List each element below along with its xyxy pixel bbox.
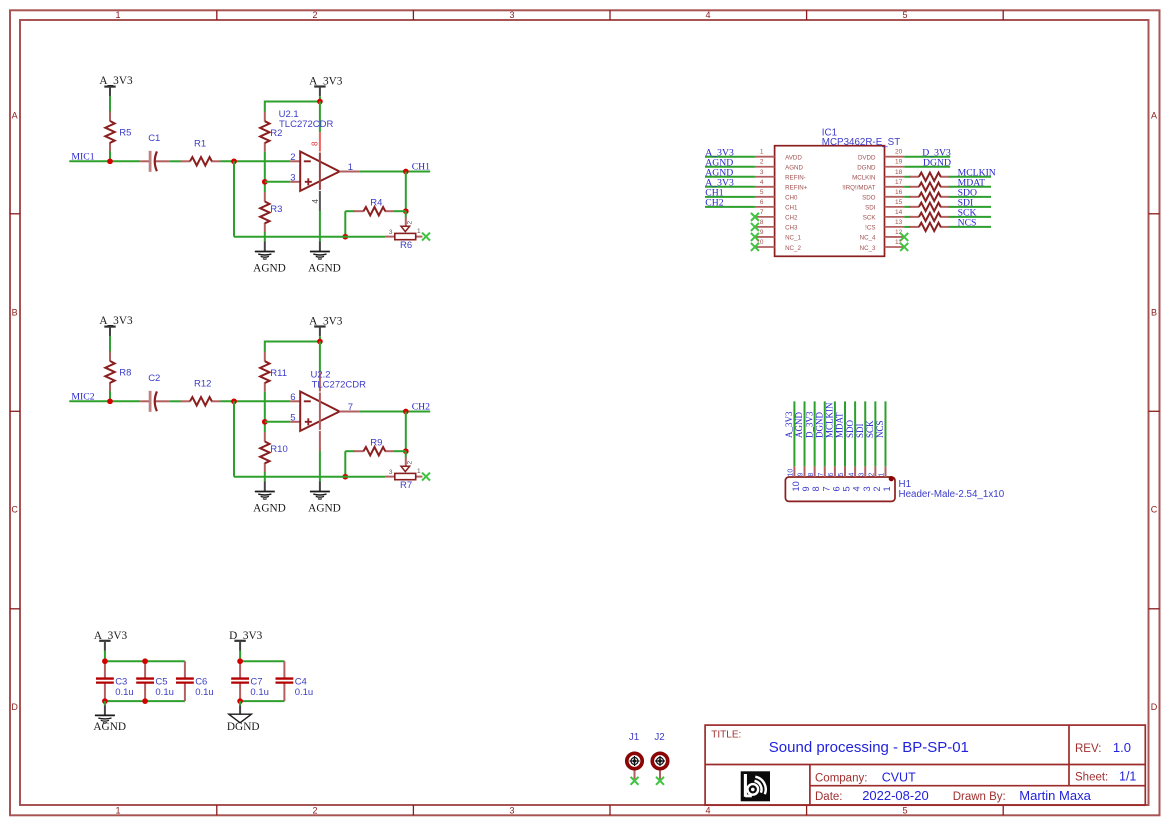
svg-text:3: 3 xyxy=(290,172,295,183)
pin 4 xyxy=(755,186,775,188)
pin 7 xyxy=(755,216,775,218)
series resistor xyxy=(904,176,911,178)
pin 4 wire net SDO xyxy=(854,401,856,466)
pin V- xyxy=(319,431,321,451)
svg-text:0.1u: 0.1u xyxy=(155,687,174,698)
svg-text:9: 9 xyxy=(798,473,805,477)
pin 16 xyxy=(885,196,905,198)
svg-text:R12: R12 xyxy=(194,378,211,389)
wire xyxy=(169,400,181,402)
wire to AGND xyxy=(104,701,106,705)
wire feedback left vertical xyxy=(233,401,235,476)
svg-text:10: 10 xyxy=(791,481,801,491)
junction xyxy=(342,474,348,480)
svg-text:AGND: AGND xyxy=(253,263,286,275)
no-connect X xyxy=(751,243,759,251)
resistor R3 xyxy=(264,192,266,202)
svg-text:4: 4 xyxy=(848,473,855,477)
svg-text:J2: J2 xyxy=(654,732,664,743)
svg-text:4: 4 xyxy=(705,806,710,816)
svg-text:DGND: DGND xyxy=(814,412,824,438)
svg-text:CH2: CH2 xyxy=(785,215,798,222)
series resistor xyxy=(904,206,911,208)
pin 5 xyxy=(755,196,775,198)
wire to non-inverting input xyxy=(265,181,291,183)
ground DGND xyxy=(229,714,252,723)
wire net CH2 xyxy=(705,206,755,208)
svg-text:A: A xyxy=(12,111,18,121)
svg-text:8: 8 xyxy=(811,486,821,491)
svg-text:SDI: SDI xyxy=(855,423,865,438)
svg-text:B: B xyxy=(12,308,18,318)
wire to inverting input xyxy=(221,400,291,402)
no-connect X xyxy=(751,213,759,221)
svg-text:7: 7 xyxy=(760,209,764,216)
wire MIC input xyxy=(69,160,140,162)
svg-text:AGND: AGND xyxy=(785,165,803,172)
wire to DGND xyxy=(239,701,241,705)
svg-text:0.1u: 0.1u xyxy=(115,687,134,698)
svg-text:8: 8 xyxy=(760,219,764,226)
svg-text:DVDD: DVDD xyxy=(858,155,876,162)
wire R3 to ground xyxy=(264,472,266,482)
ground AGND xyxy=(310,251,330,253)
wire supply to ground xyxy=(319,211,321,242)
op-amp output lead xyxy=(340,411,360,413)
svg-text:2022-08-20: 2022-08-20 xyxy=(862,788,929,803)
pin 6 xyxy=(755,206,775,208)
no-connect X xyxy=(751,223,759,231)
svg-text:J1: J1 xyxy=(629,732,639,743)
svg-text:!IRQ!/MDAT: !IRQ!/MDAT xyxy=(842,185,875,192)
wire R2 to R3 node xyxy=(264,152,266,192)
svg-text:CVUT: CVUT xyxy=(882,770,916,784)
series resistor xyxy=(904,226,911,228)
svg-text:TLC272CDR: TLC272CDR xyxy=(312,380,367,391)
IC IC1 MCP3462R-E_ST xyxy=(775,146,885,257)
wire net AGND xyxy=(705,166,755,168)
capacitor C6 xyxy=(184,661,186,678)
wire R2 to R3 node xyxy=(264,392,266,432)
pin 5 wire net MDAT xyxy=(844,401,846,466)
pin 18 xyxy=(885,176,905,178)
svg-text:R11: R11 xyxy=(270,368,287,379)
svg-text:1/1: 1/1 xyxy=(1119,769,1136,783)
op-amp output lead xyxy=(340,171,360,173)
svg-text:3: 3 xyxy=(760,169,764,176)
svg-text:REV:: REV: xyxy=(1075,743,1101,755)
wire MIC input xyxy=(69,400,140,402)
resistor R4 xyxy=(345,210,355,212)
svg-text:14: 14 xyxy=(895,209,903,216)
junction xyxy=(237,658,243,664)
svg-text:20: 20 xyxy=(895,149,903,156)
ground AGND xyxy=(255,491,275,493)
svg-text:17: 17 xyxy=(895,179,903,186)
series resistor xyxy=(904,186,911,188)
resistor R8 xyxy=(109,352,111,362)
wire output to CH xyxy=(359,171,430,173)
series resistor xyxy=(904,196,911,198)
wire net DGND xyxy=(904,166,950,168)
svg-text:4: 4 xyxy=(705,10,710,20)
capacitor C3 xyxy=(104,661,106,678)
resistor R1 xyxy=(181,160,191,162)
wire op-amp supply vertical xyxy=(319,102,321,133)
svg-text:D: D xyxy=(11,702,18,712)
svg-text:TITLE:: TITLE: xyxy=(711,730,741,741)
pin 2 wire net SCK xyxy=(874,401,876,466)
svg-text:DGND: DGND xyxy=(857,165,876,172)
svg-text:7: 7 xyxy=(821,486,831,491)
pin 17 xyxy=(885,186,905,188)
wire bottom rail xyxy=(240,700,284,702)
svg-text:5: 5 xyxy=(902,10,907,20)
svg-text:R1: R1 xyxy=(194,138,206,149)
pin 4 V- xyxy=(319,191,321,211)
no-connect X xyxy=(900,233,908,241)
svg-text:CH2: CH2 xyxy=(705,198,723,209)
junction xyxy=(317,339,323,345)
svg-text:AGND: AGND xyxy=(253,503,286,515)
svg-text:AGND: AGND xyxy=(308,263,341,275)
svg-text:MIC2: MIC2 xyxy=(71,391,94,402)
connector H1 Header-Male-2.54_1x10 xyxy=(785,477,895,501)
ground AGND xyxy=(310,491,330,493)
junction xyxy=(262,179,268,185)
svg-text:Header-Male-2.54_1x10: Header-Male-2.54_1x10 xyxy=(899,489,1005,500)
svg-text:Drawn By:: Drawn By: xyxy=(953,791,1006,803)
junction xyxy=(231,398,237,404)
pin 14 xyxy=(885,216,905,218)
wire net AGND xyxy=(705,176,755,178)
svg-text:6: 6 xyxy=(828,473,835,477)
wire output to CH xyxy=(359,411,430,413)
svg-text:R8: R8 xyxy=(119,368,131,379)
svg-text:R6: R6 xyxy=(400,240,412,251)
svg-text:SDO: SDO xyxy=(862,195,876,202)
svg-text:R10: R10 xyxy=(270,444,287,455)
pin 3 wire net SDI xyxy=(864,401,866,466)
svg-text:1: 1 xyxy=(760,149,764,156)
pin 9 xyxy=(755,236,775,238)
svg-text:MCP3462R-E_ST: MCP3462R-E_ST xyxy=(822,137,900,148)
svg-text:3: 3 xyxy=(858,473,865,477)
svg-text:R5: R5 xyxy=(119,128,131,139)
capacitor C5 xyxy=(144,661,146,678)
junction xyxy=(403,169,409,175)
svg-text:CH2: CH2 xyxy=(412,402,430,413)
svg-text:MIC1: MIC1 xyxy=(71,151,94,162)
capacitor C1 xyxy=(140,160,149,162)
svg-text:18: 18 xyxy=(895,169,903,176)
svg-text:1.0: 1.0 xyxy=(1113,740,1131,755)
svg-text:R7: R7 xyxy=(400,480,412,491)
trimmer R6 xyxy=(405,211,407,217)
junction xyxy=(107,398,113,404)
svg-text:3: 3 xyxy=(509,10,514,20)
svg-text:3: 3 xyxy=(862,486,872,491)
pin 10 wire net A_3V3 xyxy=(793,401,795,466)
svg-text:8: 8 xyxy=(311,141,320,146)
junction xyxy=(102,658,108,664)
wire feedback bottom xyxy=(234,236,385,238)
resistor R2 xyxy=(264,112,266,122)
svg-text:C1: C1 xyxy=(148,133,160,144)
wire net CH1 xyxy=(705,196,755,198)
svg-text:A_3V3: A_3V3 xyxy=(784,411,794,438)
svg-text:1: 1 xyxy=(879,473,886,477)
junction xyxy=(107,158,113,164)
pin 20 xyxy=(885,156,905,158)
wire supply to ground xyxy=(319,451,321,482)
svg-text:DGND: DGND xyxy=(923,157,951,168)
svg-text:7: 7 xyxy=(818,473,825,477)
no-connect X xyxy=(422,233,430,241)
wire xyxy=(169,160,181,162)
svg-text:C: C xyxy=(11,505,18,515)
svg-text:CH1: CH1 xyxy=(785,205,798,212)
svg-text:6: 6 xyxy=(831,486,841,491)
pin 1 xyxy=(755,156,775,158)
svg-text:5: 5 xyxy=(760,189,764,196)
svg-text:2: 2 xyxy=(872,486,882,491)
svg-text:2: 2 xyxy=(407,461,414,465)
junction xyxy=(231,158,237,164)
svg-text:A_3V3: A_3V3 xyxy=(94,630,128,642)
svg-text:AGND: AGND xyxy=(308,503,341,515)
svg-text:AGND: AGND xyxy=(93,721,126,733)
svg-text:Sound processing - BP-SP-01: Sound processing - BP-SP-01 xyxy=(769,739,969,756)
svg-text:SCK: SCK xyxy=(863,215,877,222)
wire CH down to R4 xyxy=(405,172,407,212)
svg-text:5: 5 xyxy=(842,486,852,491)
pin 19 xyxy=(885,166,905,168)
svg-text:NCS: NCS xyxy=(958,218,977,229)
svg-text:D: D xyxy=(1151,702,1158,712)
pin 15 xyxy=(885,206,905,208)
svg-text:NCS: NCS xyxy=(875,420,885,438)
svg-text:Date:: Date: xyxy=(815,791,843,803)
svg-text:SDO: SDO xyxy=(845,419,855,438)
svg-text:1: 1 xyxy=(417,228,421,235)
svg-text:4: 4 xyxy=(311,199,320,204)
no-connect X xyxy=(656,777,664,785)
wire feedback bottom xyxy=(234,476,385,478)
no-connect X xyxy=(422,473,430,481)
svg-text:C: C xyxy=(1151,505,1158,515)
svg-text:TLC272CDR: TLC272CDR xyxy=(279,119,334,130)
svg-text:6: 6 xyxy=(290,392,295,403)
svg-text:9: 9 xyxy=(801,486,811,491)
wire feedback left vertical xyxy=(233,161,235,236)
pin 6 wire net MCLKIN xyxy=(834,401,836,466)
wire bottom rail xyxy=(105,700,185,702)
svg-text:13: 13 xyxy=(895,219,903,226)
op-amp inner supply lead xyxy=(319,393,321,430)
svg-text:A: A xyxy=(1151,111,1157,121)
wire top rail xyxy=(105,660,185,662)
svg-text:AGND: AGND xyxy=(794,412,804,438)
wire net A_3V3 xyxy=(705,186,755,188)
wire to inverting input xyxy=(221,160,291,162)
pin 8 V+ xyxy=(319,132,321,151)
svg-text:!CS: !CS xyxy=(865,225,875,232)
junction xyxy=(403,208,409,214)
svg-text:1: 1 xyxy=(115,10,120,20)
svg-text:8: 8 xyxy=(808,473,815,477)
junction xyxy=(342,234,348,240)
svg-text:D_3V3: D_3V3 xyxy=(804,411,814,438)
wire top rail xyxy=(265,102,320,113)
svg-text:2: 2 xyxy=(312,806,317,816)
svg-text:MDAT: MDAT xyxy=(835,412,845,438)
pin 9 wire net AGND xyxy=(804,401,806,466)
resistor R11 xyxy=(264,352,266,362)
resistor R10 xyxy=(264,432,266,442)
ground AGND xyxy=(255,251,275,253)
svg-text:SDI: SDI xyxy=(865,205,876,212)
svg-text:Sheet:: Sheet: xyxy=(1075,771,1108,783)
svg-text:5: 5 xyxy=(838,473,845,477)
svg-text:2: 2 xyxy=(312,10,317,20)
svg-text:C2: C2 xyxy=(148,373,160,384)
svg-text:2: 2 xyxy=(760,159,764,166)
no-connect X xyxy=(751,233,759,241)
svg-text:Martin Maxa: Martin Maxa xyxy=(1019,788,1091,803)
svg-text:NC_1: NC_1 xyxy=(785,235,801,242)
svg-text:3: 3 xyxy=(389,229,393,236)
junction xyxy=(262,419,268,425)
svg-text:9: 9 xyxy=(760,229,764,236)
resistor R12 xyxy=(181,400,191,402)
pin 2 xyxy=(755,166,775,168)
svg-text:R3: R3 xyxy=(270,204,282,215)
svg-text:4: 4 xyxy=(760,179,764,186)
trimmer R7 xyxy=(405,451,407,457)
title block xyxy=(705,725,1145,805)
svg-text:DGND: DGND xyxy=(227,721,260,733)
wire net D_3V3 xyxy=(904,156,950,158)
wire to non-inverting input xyxy=(265,421,291,423)
svg-text:19: 19 xyxy=(895,159,903,166)
svg-text:5: 5 xyxy=(290,412,295,423)
resistor R9 xyxy=(345,450,355,452)
wire R3 to ground xyxy=(264,232,266,242)
svg-text:10: 10 xyxy=(788,469,795,477)
wire R4 left down xyxy=(344,451,346,477)
pin 8 wire net D_3V3 xyxy=(814,401,816,466)
capacitor C4 xyxy=(283,661,285,678)
svg-text:D_3V3: D_3V3 xyxy=(229,630,263,642)
op-amp U2.1 xyxy=(290,160,300,162)
svg-text:5: 5 xyxy=(902,806,907,816)
op-amp inner supply lead xyxy=(319,153,321,190)
svg-text:REFIN+: REFIN+ xyxy=(785,185,808,192)
wire xyxy=(109,151,111,161)
no-connect X xyxy=(900,243,908,251)
junction xyxy=(403,409,409,415)
svg-text:CH3: CH3 xyxy=(785,225,798,232)
no-connect X xyxy=(631,777,639,785)
svg-text:NC_2: NC_2 xyxy=(785,245,801,252)
wire R4 left down xyxy=(344,211,346,237)
svg-text:MCLKIN: MCLKIN xyxy=(825,402,835,438)
svg-text:7: 7 xyxy=(348,402,353,413)
pin 1 wire net NCS xyxy=(884,401,886,466)
svg-text:NC_4: NC_4 xyxy=(860,235,876,242)
wire xyxy=(109,391,111,401)
pin 13 xyxy=(885,226,905,228)
svg-text:0.1u: 0.1u xyxy=(195,687,214,698)
pin 3 xyxy=(755,176,775,178)
svg-text:16: 16 xyxy=(895,189,903,196)
op-amp U2.2 xyxy=(290,400,300,402)
wire CH down to R4 xyxy=(405,412,407,452)
pin 8 xyxy=(755,226,775,228)
svg-text:Company:: Company: xyxy=(815,773,867,785)
svg-text:0.1u: 0.1u xyxy=(295,687,314,698)
svg-text:6: 6 xyxy=(760,199,764,206)
svg-text:15: 15 xyxy=(895,199,903,206)
pin 7 wire net DGND xyxy=(824,401,826,466)
svg-text:AVDD: AVDD xyxy=(785,155,802,162)
svg-text:0.1u: 0.1u xyxy=(250,687,269,698)
capacitor C7 xyxy=(239,661,241,678)
pin V+ xyxy=(319,372,321,391)
svg-text:REFIN-: REFIN- xyxy=(785,175,806,182)
svg-text:CH0: CH0 xyxy=(785,195,798,202)
wire top rail xyxy=(240,660,284,662)
junction xyxy=(403,448,409,454)
svg-text:1: 1 xyxy=(882,486,892,491)
svg-text:R9: R9 xyxy=(370,438,382,449)
resistor R5 xyxy=(109,112,111,122)
svg-text:1: 1 xyxy=(417,468,421,475)
svg-text:A_3V3: A_3V3 xyxy=(99,75,133,87)
svg-text:MCLKIN: MCLKIN xyxy=(852,175,875,182)
junction xyxy=(317,99,323,105)
pin 10 xyxy=(755,246,775,248)
wire top rail xyxy=(265,342,320,353)
svg-text:A_3V3: A_3V3 xyxy=(99,315,133,327)
svg-text:CH1: CH1 xyxy=(412,162,430,173)
svg-text:3: 3 xyxy=(509,806,514,816)
svg-text:B: B xyxy=(1151,308,1157,318)
svg-text:NC_3: NC_3 xyxy=(860,245,876,252)
svg-text:SCK: SCK xyxy=(865,420,875,438)
pin 11 xyxy=(885,246,905,248)
svg-text:1: 1 xyxy=(348,162,353,173)
wire op-amp supply vertical xyxy=(319,342,321,373)
svg-text:R4: R4 xyxy=(370,198,382,209)
svg-text:2: 2 xyxy=(869,473,876,477)
svg-text:2: 2 xyxy=(407,221,414,225)
svg-text:3: 3 xyxy=(389,469,393,476)
svg-text:2: 2 xyxy=(290,152,295,163)
capacitor C2 xyxy=(140,400,149,402)
svg-text:1: 1 xyxy=(115,806,120,816)
wire net A_3V3 xyxy=(705,156,755,158)
logo xyxy=(741,771,770,801)
pin 12 xyxy=(885,236,905,238)
series resistor xyxy=(904,216,911,218)
svg-text:4: 4 xyxy=(852,486,862,491)
ground AGND xyxy=(95,714,115,716)
